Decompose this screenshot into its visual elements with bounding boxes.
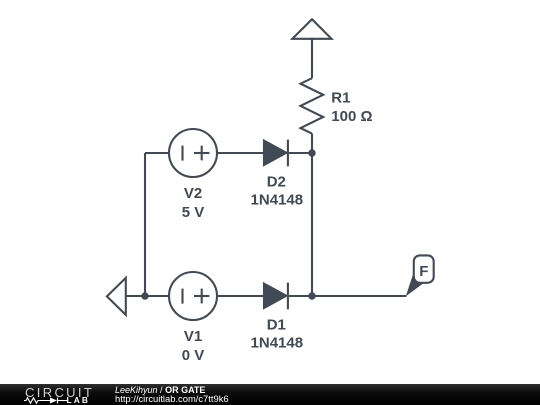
svg-text:V1: V1: [184, 328, 202, 345]
svg-text:F: F: [419, 263, 428, 280]
wire node to flag F: [312, 295, 407, 297]
power symbol (top triangle): [292, 19, 331, 39]
svg-text:0 V: 0 V: [182, 347, 205, 364]
label D1: [267, 316, 286, 333]
diode D1: [264, 283, 288, 310]
resistor R1: [301, 78, 324, 133]
svg-text:5 V: 5 V: [182, 204, 205, 221]
label flag net F: [419, 263, 428, 280]
author / title: [115, 385, 205, 395]
svg-text:1N4148: 1N4148: [251, 334, 304, 351]
CircuitLab logo schematic line + LAB: [24, 396, 94, 405]
wire node vertical: [311, 153, 313, 296]
node junction top: [308, 149, 315, 156]
flag F: [406, 255, 434, 296]
wire power to R1: [311, 39, 313, 78]
label V1: [184, 328, 202, 345]
svg-text:V2: V2: [184, 185, 202, 202]
voltage source V1: [169, 272, 217, 320]
svg-text:1N4148: 1N4148: [251, 191, 304, 208]
svg-text:100 Ω: 100 Ω: [331, 108, 372, 125]
node junction bottom: [308, 292, 315, 299]
url: [115, 393, 229, 404]
wire D1 to node: [289, 295, 312, 297]
wire V1 to D1: [217, 295, 264, 297]
wire port to V1: [126, 295, 169, 297]
CircuitLab logo wordmark: [25, 385, 94, 400]
wire R1 to node: [311, 134, 313, 153]
label D2: [267, 173, 286, 190]
wire V2 to D2: [217, 152, 264, 154]
svg-text:D2: D2: [267, 173, 286, 190]
node junction left: [141, 292, 148, 299]
footer bar: [0, 384, 540, 405]
wire left rail vertical: [144, 153, 146, 296]
label D2 value 1N4148: [251, 191, 304, 208]
label R1: [331, 89, 350, 106]
label V1 value 0 V: [182, 347, 205, 364]
wire D2 to node: [289, 152, 312, 154]
label V2: [184, 185, 202, 202]
wire V2 left: [145, 152, 169, 154]
svg-text:D1: D1: [267, 316, 286, 333]
input port symbol (left triangle): [107, 278, 126, 315]
label R1 value 100 Ω: [331, 108, 372, 125]
label V2 value 5 V: [182, 204, 205, 221]
svg-text:R1: R1: [331, 89, 350, 106]
voltage source V2: [169, 129, 217, 177]
diode D2: [264, 140, 288, 167]
label D1 value 1N4148: [251, 334, 304, 351]
